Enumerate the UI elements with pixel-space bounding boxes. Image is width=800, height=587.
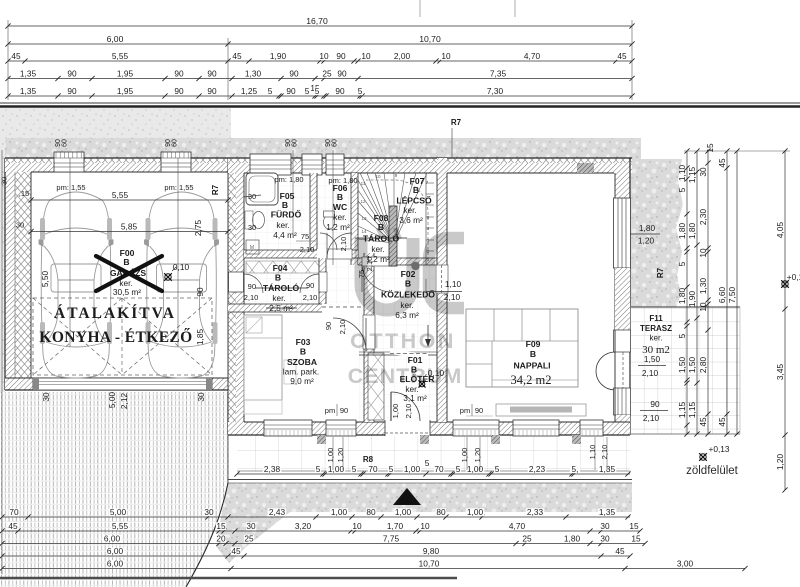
svg-text:90: 90	[207, 86, 217, 96]
svg-text:5,55: 5,55	[112, 190, 129, 200]
svg-text:lam. park.: lam. park.	[283, 367, 319, 377]
svg-text:30: 30	[0, 177, 9, 185]
svg-text:2,75: 2,75	[193, 220, 203, 237]
svg-text:13: 13	[361, 216, 367, 221]
svg-text:1,90: 1,90	[687, 291, 697, 308]
svg-text:R7: R7	[656, 267, 665, 278]
svg-text:2,12: 2,12	[119, 393, 129, 410]
svg-text:90: 90	[289, 68, 299, 78]
svg-text:ker.: ker.	[333, 212, 346, 222]
svg-text:25: 25	[322, 68, 332, 78]
svg-text:5: 5	[495, 464, 500, 474]
svg-text:2,10: 2,10	[444, 292, 461, 302]
svg-text:B: B	[123, 257, 129, 267]
svg-text:3,1 m²: 3,1 m²	[403, 393, 427, 403]
svg-text:5: 5	[677, 261, 687, 266]
svg-text:2,10: 2,10	[303, 293, 318, 302]
svg-text:B: B	[337, 192, 343, 202]
svg-text:1,80: 1,80	[639, 223, 656, 233]
svg-text:1,10: 1,10	[677, 165, 687, 182]
svg-text:5: 5	[316, 464, 321, 474]
svg-text:90: 90	[340, 406, 348, 415]
svg-text:NAPPALI: NAPPALI	[513, 361, 550, 371]
svg-text:1,50: 1,50	[644, 354, 661, 364]
svg-text:SZOBA: SZOBA	[287, 357, 317, 367]
svg-text:7,30: 7,30	[487, 86, 504, 96]
svg-text:25: 25	[244, 533, 254, 543]
svg-text:7,75: 7,75	[383, 533, 400, 543]
svg-text:30: 30	[204, 507, 214, 517]
svg-text:30,5 m²: 30,5 m²	[113, 287, 141, 297]
svg-text:90: 90	[207, 68, 217, 78]
svg-text:45: 45	[717, 158, 727, 168]
svg-text:pm: pm	[460, 406, 470, 415]
svg-text:2,10: 2,10	[300, 245, 315, 254]
svg-text:3,45: 3,45	[775, 364, 785, 381]
svg-text:0,10: 0,10	[173, 262, 190, 272]
svg-text:10,70: 10,70	[419, 34, 441, 44]
svg-text:5,85: 5,85	[121, 221, 138, 231]
svg-text:5,: 5,	[572, 464, 579, 474]
svg-text:90: 90	[336, 51, 346, 61]
svg-text:10: 10	[698, 248, 708, 258]
svg-text:1,10: 1,10	[445, 279, 462, 289]
svg-text:1,80: 1,80	[564, 533, 581, 543]
svg-text:ker.: ker.	[272, 293, 285, 303]
svg-text:5: 5	[677, 333, 687, 338]
svg-text:2,80: 2,80	[698, 357, 708, 374]
svg-text:1,35: 1,35	[20, 68, 37, 78]
svg-text:1,00: 1,00	[467, 464, 484, 474]
svg-text:1,35: 1,35	[20, 86, 37, 96]
svg-text:45: 45	[615, 546, 625, 556]
svg-text:2,43: 2,43	[269, 507, 286, 517]
svg-text:10: 10	[420, 521, 430, 531]
svg-text:45: 45	[232, 51, 242, 61]
svg-text:4,4 m²: 4,4 m²	[273, 230, 297, 240]
svg-text:2,30: 2,30	[698, 209, 708, 226]
svg-text:6,00: 6,00	[107, 546, 124, 556]
svg-text:4,70: 4,70	[524, 51, 541, 61]
svg-text:1,00: 1,00	[467, 507, 484, 517]
svg-text:4,05: 4,05	[775, 222, 785, 239]
svg-text:1,90: 1,90	[270, 51, 287, 61]
svg-text:TERASZ: TERASZ	[640, 324, 672, 333]
svg-text:B: B	[413, 185, 419, 195]
svg-text:30: 30	[41, 392, 51, 402]
svg-text:45: 45	[717, 417, 727, 427]
svg-text:5,55: 5,55	[112, 521, 129, 531]
svg-text:80: 80	[366, 507, 376, 517]
svg-text:90: 90	[67, 86, 77, 96]
svg-text:F11: F11	[649, 314, 663, 323]
svg-text:30: 30	[600, 533, 610, 543]
svg-text:5: 5	[268, 86, 273, 96]
svg-text:,15: ,15	[19, 189, 29, 198]
svg-text:F04: F04	[273, 263, 288, 273]
svg-text:ker.: ker.	[650, 334, 663, 343]
svg-text:7,35: 7,35	[490, 68, 507, 78]
svg-text:5: 5	[456, 464, 461, 474]
svg-text:TÁROLÓ: TÁROLÓ	[263, 282, 300, 293]
svg-text:2,10: 2,10	[244, 293, 259, 302]
svg-text:5,50: 5,50	[40, 271, 50, 288]
svg-text:90: 90	[306, 281, 314, 290]
svg-text:ker.: ker.	[276, 220, 289, 230]
svg-text:pm: 1,55: pm: 1,55	[56, 183, 85, 192]
svg-text:90: 90	[174, 68, 184, 78]
svg-text:90: 90	[174, 86, 184, 96]
svg-text:60: 60	[332, 139, 339, 147]
svg-text:KONYHA - ÉTKEZŐ: KONYHA - ÉTKEZŐ	[39, 329, 192, 346]
svg-text:1,00: 1,00	[395, 507, 412, 517]
svg-text:7,50: 7,50	[727, 287, 737, 304]
svg-text:LÉPCSŐ: LÉPCSŐ	[396, 195, 432, 206]
svg-text:12: 12	[360, 199, 366, 204]
svg-text:2,23: 2,23	[529, 464, 546, 474]
svg-text:B: B	[300, 347, 306, 357]
svg-text:R7: R7	[211, 184, 220, 195]
svg-text:2,10: 2,10	[339, 237, 348, 252]
svg-text:70: 70	[368, 464, 378, 474]
svg-text:1,50: 1,50	[677, 357, 687, 374]
svg-text:90: 90	[337, 68, 347, 78]
svg-text:90: 90	[67, 68, 77, 78]
svg-text:B: B	[275, 273, 281, 283]
svg-text:5: 5	[358, 86, 363, 96]
svg-text:45: 45	[8, 521, 18, 531]
svg-text:10: 10	[352, 521, 362, 531]
svg-text:1,15: 1,15	[677, 402, 687, 419]
svg-text:5: 5	[352, 464, 357, 474]
svg-text:1,2 m²: 1,2 m²	[326, 222, 350, 232]
svg-text:5: 5	[315, 86, 320, 96]
svg-text:1,25: 1,25	[241, 86, 258, 96]
svg-text:9,0 m²: 9,0 m²	[290, 376, 314, 386]
svg-text:45: 45	[617, 51, 627, 61]
svg-text:1,70: 1,70	[387, 521, 404, 531]
svg-text:5,55: 5,55	[112, 51, 129, 61]
svg-text:5: 5	[425, 458, 430, 468]
svg-text:10: 10	[319, 51, 329, 61]
svg-text:WC: WC	[333, 202, 347, 212]
svg-text:90: 90	[650, 399, 660, 409]
svg-text:2,10: 2,10	[643, 413, 660, 423]
svg-text:5,00: 5,00	[107, 392, 117, 409]
svg-text:3,20: 3,20	[295, 521, 312, 531]
svg-text:ÁTALAKÍTVA: ÁTALAKÍTVA	[54, 305, 176, 322]
svg-text:2,10: 2,10	[338, 320, 347, 335]
svg-text:1,00: 1,00	[391, 404, 400, 419]
svg-text:3,6 m²: 3,6 m²	[399, 215, 423, 225]
svg-text:1,00: 1,00	[326, 448, 335, 463]
svg-text:1,80: 1,80	[687, 223, 697, 240]
svg-text:1,15: 1,15	[687, 402, 697, 419]
svg-text:OTTHON: OTTHON	[350, 329, 456, 353]
svg-text:pm: 1,80: pm: 1,80	[274, 175, 303, 184]
svg-text:1,00: 1,00	[460, 448, 469, 463]
svg-text:90: 90	[335, 86, 345, 96]
svg-text:+0,1: +0,1	[787, 272, 800, 282]
svg-text:10: 10	[441, 51, 451, 61]
svg-text:1,10: 1,10	[588, 445, 597, 460]
svg-text:2,10: 2,10	[600, 445, 609, 460]
svg-text:15: 15	[216, 521, 226, 531]
svg-text:90: 90	[248, 282, 256, 291]
svg-text:45: 45	[698, 417, 708, 427]
svg-text:9,80: 9,80	[423, 546, 440, 556]
svg-text:B: B	[530, 349, 536, 359]
svg-text:2,00: 2,00	[394, 51, 411, 61]
svg-text:5: 5	[677, 187, 687, 192]
svg-text:1,50: 1,50	[687, 357, 697, 374]
svg-text:6,00: 6,00	[107, 34, 124, 44]
svg-text:30: 30	[698, 167, 708, 177]
svg-text:1,15: 1,15	[687, 167, 697, 184]
svg-text:M: M	[250, 245, 254, 251]
svg-text:1,30: 1,30	[245, 68, 262, 78]
svg-text:10,70: 10,70	[419, 558, 440, 568]
svg-text:34,2 m2: 34,2 m2	[511, 373, 552, 387]
svg-text:90: 90	[475, 406, 483, 415]
svg-text:30: 30	[246, 521, 256, 531]
svg-text:5,00: 5,00	[110, 507, 127, 517]
svg-text:25: 25	[522, 533, 532, 543]
svg-text:16,70: 16,70	[306, 16, 328, 26]
svg-text:3,00: 3,00	[677, 558, 694, 568]
svg-text:1,85: 1,85	[195, 329, 205, 346]
svg-text:+0,13: +0,13	[709, 444, 730, 454]
svg-text:30: 30	[600, 521, 610, 531]
svg-text:FÜRDŐ: FÜRDŐ	[271, 209, 302, 220]
svg-text:F03: F03	[296, 337, 311, 347]
svg-text:90: 90	[324, 322, 333, 330]
svg-text:1,00: 1,00	[404, 464, 421, 474]
svg-text:1,00: 1,00	[331, 507, 348, 517]
svg-text:75: 75	[301, 232, 309, 241]
svg-text:15: 15	[629, 521, 639, 531]
svg-text:1,20: 1,20	[473, 448, 482, 463]
svg-text:2,10: 2,10	[404, 404, 413, 419]
svg-text:4,70: 4,70	[509, 521, 526, 531]
svg-text:1,30: 1,30	[698, 278, 708, 295]
svg-text:90: 90	[195, 287, 205, 297]
svg-text:2,10: 2,10	[642, 368, 659, 378]
svg-text:2,33: 2,33	[527, 507, 544, 517]
svg-text:11: 11	[361, 181, 366, 186]
svg-text:80: 80	[436, 507, 446, 517]
svg-text:60: 60	[292, 139, 299, 147]
svg-text:10: 10	[361, 51, 371, 61]
svg-text:10: 10	[375, 174, 381, 179]
svg-text:CENTRUM: CENTRUM	[348, 364, 463, 388]
svg-text:2,38: 2,38	[264, 464, 281, 474]
svg-text:F09: F09	[526, 339, 541, 349]
svg-text:15: 15	[631, 533, 641, 543]
svg-text:20: 20	[216, 533, 226, 543]
svg-text:30: 30	[16, 221, 24, 230]
svg-text:1,35: 1,35	[599, 507, 616, 517]
svg-text:45: 45	[11, 51, 21, 61]
svg-text:1,95: 1,95	[117, 68, 134, 78]
svg-text:pm: pm	[325, 406, 335, 415]
svg-text:60: 60	[62, 139, 69, 147]
svg-text:60: 60	[172, 139, 179, 147]
svg-text:90: 90	[286, 86, 296, 96]
svg-text:1,80: 1,80	[677, 223, 687, 240]
svg-text:45: 45	[231, 546, 241, 556]
svg-text:ker.: ker.	[403, 205, 416, 215]
svg-text:6,00: 6,00	[107, 558, 124, 568]
svg-text:30: 30	[196, 392, 206, 402]
svg-text:1,20: 1,20	[775, 454, 785, 471]
svg-text:R8: R8	[363, 455, 374, 464]
svg-text:R7: R7	[451, 118, 462, 127]
svg-text:10: 10	[698, 302, 708, 312]
svg-text:B: B	[282, 200, 288, 210]
svg-text:1,00: 1,00	[328, 464, 345, 474]
svg-text:ker.: ker.	[371, 244, 384, 254]
svg-text:5: 5	[305, 86, 310, 96]
svg-text:zöldfelület: zöldfelület	[686, 465, 739, 477]
svg-text:70: 70	[9, 507, 19, 517]
svg-text:70: 70	[434, 464, 444, 474]
svg-text:1,20: 1,20	[336, 448, 345, 463]
svg-text:6,60: 6,60	[717, 287, 727, 304]
svg-text:5: 5	[389, 464, 394, 474]
svg-text:1,95: 1,95	[117, 86, 134, 96]
svg-text:pm: 1,55: pm: 1,55	[164, 183, 193, 192]
svg-text:6,00: 6,00	[104, 533, 121, 543]
svg-text:1,80: 1,80	[677, 288, 687, 305]
svg-text:1,20: 1,20	[638, 236, 655, 246]
svg-text:30: 30	[248, 223, 256, 232]
